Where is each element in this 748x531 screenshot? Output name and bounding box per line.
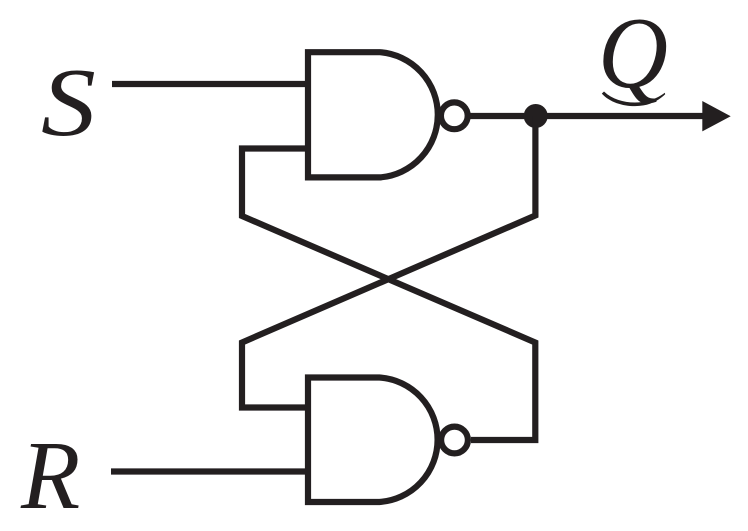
- wire S input: [112, 81, 308, 87]
- nand gate U1: [308, 52, 438, 177]
- wire Q output: [468, 113, 706, 119]
- wire feedback U2 output to U1 input (stub, vertical, diagonal, vertical, stub): [242, 149, 535, 441]
- inverter bubble U2: [441, 427, 468, 454]
- svg-text:S: S: [41, 47, 96, 156]
- inverter bubble U1: [441, 102, 468, 129]
- wire R input: [111, 468, 308, 474]
- svg-text:Q: Q: [598, 0, 668, 110]
- junction dot node Q: [524, 104, 548, 128]
- arrowhead Q: [702, 101, 730, 131]
- node Q label swash tail: [602, 92, 665, 107]
- svg-text:R: R: [20, 422, 80, 529]
- nand gate U2: [308, 378, 438, 503]
- wire feedback Q to U2 input (vertical, diagonal, vertical, stub): [242, 116, 535, 408]
